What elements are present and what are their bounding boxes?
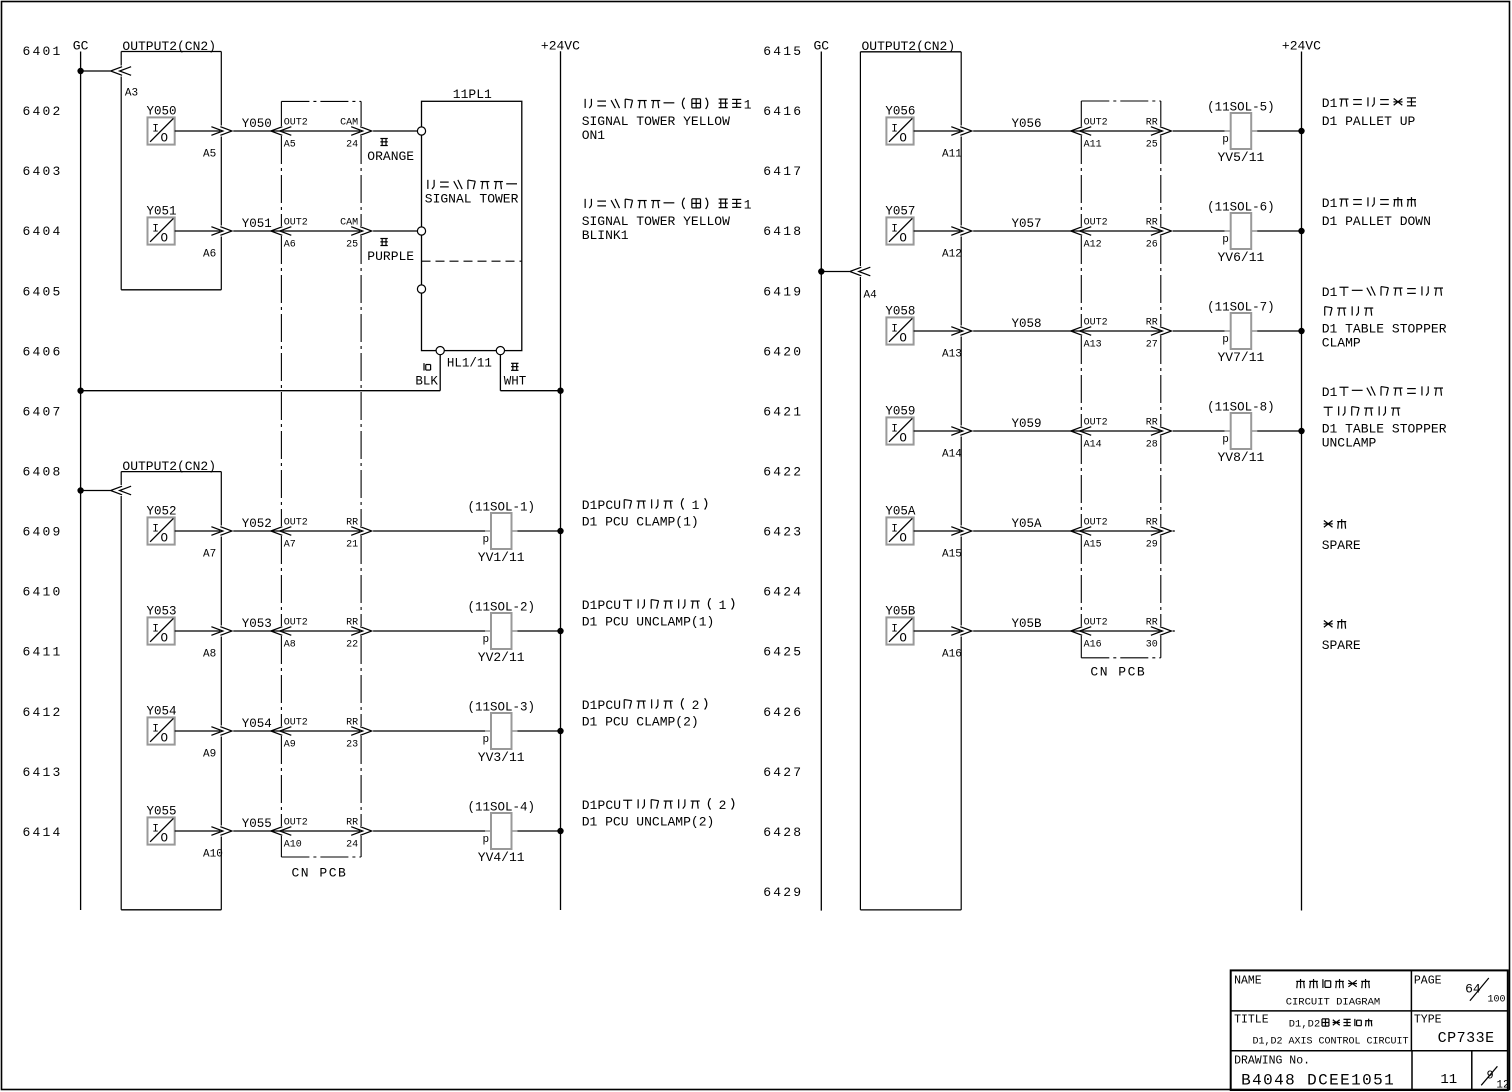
arrow into CN PCB connector (Y050) xyxy=(280,127,292,136)
svg-text:Y052: Y052 xyxy=(242,517,272,531)
arrow into CN PCB connector (Y058) xyxy=(1080,327,1092,336)
svg-text:6419: 6419 xyxy=(763,284,803,299)
svg-text:Y057: Y057 xyxy=(1012,217,1042,231)
svg-text:C: C xyxy=(605,498,613,513)
svg-text:23: 23 xyxy=(346,739,358,750)
wire Y059 to solenoid YV8/11 xyxy=(1173,430,1225,432)
wire inside CN PCB connector (Y05B) xyxy=(1082,630,1160,632)
svg-text:O: O xyxy=(161,831,169,845)
wire inside CN PCB connector (Y058) xyxy=(1082,330,1160,332)
svg-text:D1 PCU CLAMP(2): D1 PCU CLAMP(2) xyxy=(582,715,699,730)
title block TITLE cell xyxy=(1234,1014,1408,1048)
svg-text:OUT2: OUT2 xyxy=(1084,217,1108,228)
svg-text:6413: 6413 xyxy=(23,765,63,780)
svg-text:O: O xyxy=(161,131,169,145)
svg-text:CAM: CAM xyxy=(340,217,358,228)
node junction +24VC rail line y=731 xyxy=(557,728,563,734)
svg-text:6402: 6402 xyxy=(23,104,63,119)
wire solenoid YV6/11 to +24VC rail (right) xyxy=(1257,230,1301,232)
wire Y052 into CN PCB connector xyxy=(233,530,280,532)
wire solenoid YV7/11 to +24VC rail (right) xyxy=(1257,330,1301,332)
svg-text:D: D xyxy=(582,698,590,713)
svg-text:6423: 6423 xyxy=(763,525,803,540)
svg-text:1: 1 xyxy=(719,598,727,613)
svg-text:6427: 6427 xyxy=(763,765,803,780)
arrow out of CN PCB connector (Y053) xyxy=(351,627,363,636)
svg-text:6403: 6403 xyxy=(23,164,63,179)
svg-text:YV4/11: YV4/11 xyxy=(478,850,525,865)
wire Y050 into CN PCB connector xyxy=(233,130,280,132)
output driver I/O symbol Y056 xyxy=(885,105,915,146)
wire color label black (BLK) xyxy=(423,363,425,370)
svg-text:A9: A9 xyxy=(203,748,216,760)
node GC junction at line 6419 (right) xyxy=(818,268,824,274)
svg-text:Y059: Y059 xyxy=(885,405,915,419)
svg-text:NAME: NAME xyxy=(1234,975,1262,988)
svg-text:I: I xyxy=(152,124,159,136)
wire color label orange xyxy=(380,138,387,140)
svg-text:BLK: BLK xyxy=(415,374,438,388)
output driver I/O symbol Y057 xyxy=(885,205,915,246)
title block PAGE cell 64/100 xyxy=(1414,975,1506,1006)
svg-text:I: I xyxy=(152,724,159,736)
svg-text:Y051: Y051 xyxy=(147,205,177,219)
wire inside CN PCB connector (Y055) xyxy=(282,830,360,832)
wire return rail line 6407 (GC to BLK) xyxy=(81,390,441,392)
wire Y052 to solenoid YV1/11 xyxy=(373,530,485,532)
svg-text:CP733E: CP733E xyxy=(1438,1030,1495,1047)
arrow into OUTPUT2 block 2 xyxy=(120,486,132,495)
svg-text:29: 29 xyxy=(1146,539,1158,550)
wire stub spare output Y05B xyxy=(1173,630,1175,632)
svg-text:OUT2: OUT2 xyxy=(284,817,308,828)
output driver I/O symbol Y058 xyxy=(885,305,915,346)
svg-text:A9: A9 xyxy=(284,739,296,750)
svg-text:DRAWING No.: DRAWING No. xyxy=(1234,1054,1310,1067)
node junction +24VC rail (right) y=231 xyxy=(1298,228,1304,234)
arrow out of CN PCB connector (Y055) xyxy=(351,827,363,836)
svg-text:PAGE: PAGE xyxy=(1414,975,1442,988)
svg-text:A13: A13 xyxy=(942,348,962,360)
svg-text:SIGNAL TOWER: SIGNAL TOWER xyxy=(425,191,519,206)
svg-text:O: O xyxy=(161,231,169,245)
arrow out of OUTPUT2 (Y052) xyxy=(211,527,223,536)
svg-text:p: p xyxy=(1222,234,1229,246)
line number column left (6401-6414) xyxy=(23,44,63,840)
svg-text:U: U xyxy=(613,598,621,613)
solenoid valve coil YV6/11 (11SOL-6) xyxy=(1207,200,1275,265)
svg-text:D1 PCU UNCLAMP(1): D1 PCU UNCLAMP(1) xyxy=(582,615,715,630)
wire Y05A into CN PCB connector xyxy=(973,530,1080,532)
svg-text:Y051: Y051 xyxy=(242,217,272,231)
solenoid valve coil YV4/11 (11SOL-4) xyxy=(467,800,535,865)
svg-text:D1,D2 AXIS CONTROL CIRCUIT: D1,D2 AXIS CONTROL CIRCUIT xyxy=(1253,1037,1409,1048)
wire Y056 into CN PCB connector xyxy=(973,130,1080,132)
svg-text:D1 PALLET UP: D1 PALLET UP xyxy=(1322,114,1416,129)
description solenoid row y=731 xyxy=(582,698,707,730)
wire GC to OUTPUT2 block 2 xyxy=(81,490,111,492)
svg-text:O: O xyxy=(899,231,907,245)
arrow out of CN PCB connector (Y05A) xyxy=(1151,527,1163,536)
svg-text:U: U xyxy=(613,698,621,713)
svg-text:ORANGE: ORANGE xyxy=(367,149,414,164)
svg-text:D: D xyxy=(1322,385,1330,400)
wire Y057 to solenoid YV6/11 xyxy=(1173,230,1225,232)
svg-text:100: 100 xyxy=(1488,995,1506,1006)
svg-text:A15: A15 xyxy=(1084,539,1102,550)
svg-text:D1 TABLE STOPPER: D1 TABLE STOPPER xyxy=(1322,322,1447,337)
wire color label purple xyxy=(380,238,387,240)
arrow out of CN PCB connector (Y059) xyxy=(1151,427,1163,436)
svg-text:6412: 6412 xyxy=(23,705,63,720)
output driver I/O symbol Y053 xyxy=(147,605,177,646)
wire solenoid YV2/11 to +24VC rail xyxy=(518,630,561,632)
svg-text:6414: 6414 xyxy=(23,825,63,840)
svg-text:1: 1 xyxy=(1330,385,1338,400)
arrow into CN PCB connector (Y059) xyxy=(1080,427,1092,436)
svg-text:A12: A12 xyxy=(942,248,962,260)
svg-text:UNCLAMP: UNCLAMP xyxy=(1322,436,1377,451)
arrow into CN PCB connector (Y056) xyxy=(1080,127,1092,136)
arrow into OUTPUT2 connector (A3) xyxy=(120,67,132,76)
svg-text:Y053: Y053 xyxy=(242,617,272,631)
svg-text:D: D xyxy=(1322,285,1330,300)
svg-text:p: p xyxy=(483,734,490,746)
wire color label white (WHT) xyxy=(511,362,518,364)
description line 6416: D1 pallet up xyxy=(1322,96,1416,129)
svg-text:O: O xyxy=(161,531,169,545)
arrow into CN PCB connector (Y052) xyxy=(280,527,292,536)
wire inside CN PCB connector (Y059) xyxy=(1082,430,1160,432)
arrow into CN PCB connector (Y05B) xyxy=(1080,627,1092,636)
svg-text:6407: 6407 xyxy=(23,404,63,419)
GC bus vertical wire (left) xyxy=(80,52,82,911)
svg-text:A8: A8 xyxy=(284,639,296,650)
svg-text:U: U xyxy=(613,798,621,813)
arrow into CN PCB connector (Y051) xyxy=(280,227,292,236)
svg-text:6411: 6411 xyxy=(23,645,63,660)
svg-text:1: 1 xyxy=(744,198,752,213)
svg-text:OUT2: OUT2 xyxy=(284,217,308,228)
svg-text:,: , xyxy=(1301,1019,1307,1031)
line number column right (6415-6429) xyxy=(763,44,803,900)
output driver I/O symbol Y05B xyxy=(885,605,916,646)
svg-text:2: 2 xyxy=(692,698,700,713)
wire GC to OUTPUT2(CN2) connector A3 xyxy=(81,70,111,72)
description solenoid row y=831 xyxy=(582,798,734,830)
svg-text:30: 30 xyxy=(1146,639,1158,650)
svg-text:I: I xyxy=(152,524,159,536)
svg-text:A13: A13 xyxy=(1084,339,1102,350)
svg-text:1: 1 xyxy=(692,498,700,513)
svg-text:SIGNAL TOWER YELLOW: SIGNAL TOWER YELLOW xyxy=(582,114,730,129)
svg-text:O: O xyxy=(899,131,907,145)
solenoid valve coil YV3/11 (11SOL-3) xyxy=(467,700,535,765)
wire Y054 to solenoid YV3/11 xyxy=(373,730,485,732)
svg-text:TITLE: TITLE xyxy=(1234,1014,1269,1027)
wire inside CN PCB connector (Y057) xyxy=(1082,230,1160,232)
svg-text:O: O xyxy=(161,631,169,645)
svg-text:O: O xyxy=(899,631,907,645)
terminal circle signal tower pin (orange, line 6402) xyxy=(417,127,425,135)
svg-text:OUT2: OUT2 xyxy=(1084,417,1108,428)
svg-text:Y055: Y055 xyxy=(242,817,272,831)
svg-text:A11: A11 xyxy=(942,148,962,160)
svg-text:D1 PCU UNCLAMP(2): D1 PCU UNCLAMP(2) xyxy=(582,815,715,830)
svg-text:6429: 6429 xyxy=(763,885,803,900)
arrow out of CN PCB connector (Y05B) xyxy=(1151,627,1163,636)
svg-text:A8: A8 xyxy=(203,648,216,660)
svg-text:O: O xyxy=(161,731,169,745)
connector CN PCB dash-dot boundary (left) xyxy=(281,101,361,880)
arrow out of OUTPUT2 (Y059) xyxy=(951,427,963,436)
svg-text:B4048 DCEE1051: B4048 DCEE1051 xyxy=(1241,1072,1395,1090)
svg-text:OUT2: OUT2 xyxy=(1084,517,1108,528)
svg-text:A4: A4 xyxy=(864,290,878,302)
svg-text:CN PCB: CN PCB xyxy=(292,866,348,881)
arrow out of OUTPUT2 (Y050) xyxy=(211,127,223,136)
svg-text:D: D xyxy=(1289,1019,1295,1031)
svg-text:O: O xyxy=(899,331,907,345)
output driver I/O symbol Y054 xyxy=(147,705,177,746)
wire Y05A from I/O driver to connector pin A15 xyxy=(914,530,961,532)
svg-text:p: p xyxy=(483,534,490,546)
terminal circle signal tower BLK pin xyxy=(436,347,444,355)
svg-text:2: 2 xyxy=(719,798,727,813)
wire Y050 to signal tower terminal (orange) xyxy=(373,130,417,132)
svg-text:SIGNAL TOWER YELLOW: SIGNAL TOWER YELLOW xyxy=(582,214,730,229)
svg-text:6405: 6405 xyxy=(23,284,63,299)
wire inside CN PCB connector (Y056) xyxy=(1082,130,1160,132)
svg-text:D1 PCU CLAMP(1): D1 PCU CLAMP(1) xyxy=(582,515,699,530)
description line 6421: D1 table stopper unclamp xyxy=(1322,385,1447,451)
output driver I/O symbol Y055 xyxy=(147,805,177,846)
svg-text:+24VC: +24VC xyxy=(1282,39,1321,54)
svg-text:GC: GC xyxy=(73,39,89,54)
wire inside CN PCB connector (Y053) xyxy=(282,630,360,632)
svg-text:p: p xyxy=(1222,134,1229,146)
description line 6420: D1 table stopper clamp xyxy=(1322,285,1447,351)
svg-text:1: 1 xyxy=(1330,96,1338,111)
wire Y055 into CN PCB connector xyxy=(233,830,280,832)
svg-text:6406: 6406 xyxy=(23,344,63,359)
arrow out of OUTPUT2 (Y051) xyxy=(211,227,223,236)
svg-text:6420: 6420 xyxy=(763,344,803,359)
node junction +24VC rail (right) y=431 xyxy=(1298,428,1304,434)
svg-text:Y054: Y054 xyxy=(242,717,272,731)
description line 6404: signal tower yellow blink1 xyxy=(582,198,752,244)
svg-text:6418: 6418 xyxy=(763,224,803,239)
arrow out of OUTPUT2 (Y05B) xyxy=(951,627,963,636)
svg-text:D: D xyxy=(1322,96,1330,111)
svg-text:1: 1 xyxy=(590,598,598,613)
svg-text:6410: 6410 xyxy=(23,585,63,600)
wire solenoid YV1/11 to +24VC rail xyxy=(518,530,561,532)
solenoid valve coil YV1/11 (11SOL-1) xyxy=(467,500,535,565)
svg-text:BLINK1: BLINK1 xyxy=(582,228,629,243)
svg-text:Y05B: Y05B xyxy=(1012,617,1043,631)
description line 6423: spare xyxy=(1322,519,1361,553)
wire Y055 to solenoid YV4/11 xyxy=(373,830,485,832)
wire WHT drop from signal tower xyxy=(499,355,501,391)
wire Y055 from I/O driver to connector pin A10 xyxy=(175,830,221,832)
svg-text:D: D xyxy=(582,498,590,513)
wire Y059 from I/O driver to connector pin A14 xyxy=(914,430,961,432)
arrow out of CN PCB connector (Y056) xyxy=(1151,127,1163,136)
wire Y05B into CN PCB connector xyxy=(973,630,1080,632)
solenoid valve coil YV7/11 (11SOL-7) xyxy=(1207,300,1275,365)
svg-text:YV3/11: YV3/11 xyxy=(478,750,525,765)
svg-text:A7: A7 xyxy=(203,548,216,560)
svg-text:64: 64 xyxy=(1465,981,1481,996)
wire Y056 to solenoid YV5/11 xyxy=(1173,130,1225,132)
svg-text:I: I xyxy=(891,624,898,636)
svg-text:6416: 6416 xyxy=(763,104,803,119)
svg-text:HL1/11: HL1/11 xyxy=(447,356,492,370)
arrow out of CN PCB connector (Y057) xyxy=(1151,227,1163,236)
svg-text:6415: 6415 xyxy=(763,44,803,59)
wire Y05B from I/O driver to connector pin A16 xyxy=(914,630,961,632)
svg-text:22: 22 xyxy=(346,639,358,650)
svg-text:p: p xyxy=(1222,334,1229,346)
wire inside CN PCB connector (Y054) xyxy=(282,730,360,732)
svg-text:D: D xyxy=(582,598,590,613)
svg-text:O: O xyxy=(899,531,907,545)
svg-text:OUT2: OUT2 xyxy=(284,617,308,628)
svg-text:2: 2 xyxy=(1314,1019,1320,1031)
wire Y051 into CN PCB connector xyxy=(233,230,280,232)
svg-text:1: 1 xyxy=(590,498,598,513)
terminal circle signal tower WHT pin xyxy=(496,347,504,355)
svg-text:Y057: Y057 xyxy=(885,205,915,219)
wire Y053 into CN PCB connector xyxy=(233,630,280,632)
svg-text:D: D xyxy=(1322,196,1330,211)
node junction +24VC rail line y=531 xyxy=(557,528,563,534)
node GC junction at line 6401 xyxy=(77,68,83,74)
svg-text:25: 25 xyxy=(346,239,358,250)
output driver I/O symbol Y059 xyxy=(885,405,915,446)
svg-text:6408: 6408 xyxy=(23,464,63,479)
svg-text:TYPE: TYPE xyxy=(1414,1014,1442,1027)
output driver I/O symbol Y051 xyxy=(147,205,177,246)
svg-text:YV8/11: YV8/11 xyxy=(1217,450,1264,465)
svg-text:11PL1: 11PL1 xyxy=(453,87,492,102)
output driver I/O symbol Y05A xyxy=(885,505,916,546)
svg-text:I: I xyxy=(891,224,898,236)
svg-text:Y058: Y058 xyxy=(885,305,915,319)
arrow out of CN PCB connector (Y058) xyxy=(1151,327,1163,336)
arrow out of CN PCB connector (Y050) xyxy=(351,127,363,136)
arrow out of OUTPUT2 (Y05A) xyxy=(951,527,963,536)
svg-text:Y058: Y058 xyxy=(1012,317,1042,331)
description line 6425: spare xyxy=(1322,619,1361,653)
terminal circle signal tower pin (purple, line 6404) xyxy=(417,227,425,235)
svg-text:A11: A11 xyxy=(1084,139,1102,150)
svg-text:OUT2: OUT2 xyxy=(1084,617,1108,628)
svg-text:I: I xyxy=(891,324,898,336)
svg-text:24: 24 xyxy=(346,839,358,850)
OUTPUT2(CN2) connector block (lines 6415-6429) xyxy=(860,39,961,910)
svg-text:6426: 6426 xyxy=(763,705,803,720)
svg-text:I: I xyxy=(152,624,159,636)
svg-text:ON1: ON1 xyxy=(582,128,606,143)
arrow into CN PCB connector (Y053) xyxy=(280,627,292,636)
svg-text:A3: A3 xyxy=(125,88,138,100)
svg-text:U: U xyxy=(613,498,621,513)
arrow out of OUTPUT2 (Y057) xyxy=(951,227,963,236)
svg-text:p: p xyxy=(1222,434,1229,446)
svg-text:Y050: Y050 xyxy=(242,117,272,131)
arrow into CN PCB connector (Y05A) xyxy=(1080,527,1092,536)
terminal circle signal tower spare pin (line 6405) xyxy=(417,285,425,293)
svg-text:6409: 6409 xyxy=(23,525,63,540)
svg-text:1: 1 xyxy=(1330,196,1338,211)
wire Y058 from I/O driver to connector pin A13 xyxy=(914,330,961,332)
arrow out of OUTPUT2 (Y055) xyxy=(211,827,223,836)
node GC junction at line 6408 xyxy=(77,487,83,493)
svg-text:A15: A15 xyxy=(942,548,962,560)
svg-text:A16: A16 xyxy=(942,648,962,660)
svg-text:P: P xyxy=(597,498,605,513)
svg-text:P: P xyxy=(597,598,605,613)
title block TYPE cell CP733E xyxy=(1414,1014,1495,1047)
svg-text:I: I xyxy=(891,424,898,436)
wire Y056 from I/O driver to connector pin A11 xyxy=(914,130,961,132)
title block NAME cell xyxy=(1234,975,1380,1009)
svg-text:21: 21 xyxy=(346,539,358,550)
node junction +24VC rail line y=831 xyxy=(557,828,563,834)
svg-text:A16: A16 xyxy=(1084,639,1102,650)
arrow into CN PCB connector (Y054) xyxy=(280,727,292,736)
GC bus vertical wire (right) xyxy=(820,52,822,911)
wire inside CN PCB connector (Y05A) xyxy=(1082,530,1160,532)
wire Y053 from I/O driver to connector pin A8 xyxy=(175,630,221,632)
wire inside CN PCB connector (Y050) xyxy=(282,130,360,132)
svg-text:6404: 6404 xyxy=(23,224,63,239)
svg-text:PURPLE: PURPLE xyxy=(367,249,414,264)
svg-text:SPARE: SPARE xyxy=(1322,538,1361,553)
wire BLK drop from signal tower xyxy=(439,355,441,391)
svg-text:O: O xyxy=(899,431,907,445)
svg-text:24: 24 xyxy=(346,139,358,150)
svg-text:Y059: Y059 xyxy=(1012,417,1042,431)
wire inside CN PCB connector (Y051) xyxy=(282,230,360,232)
svg-text:D: D xyxy=(1308,1019,1314,1031)
svg-text:I: I xyxy=(891,524,898,536)
svg-text:YV6/11: YV6/11 xyxy=(1217,250,1264,265)
arrow out of CN PCB connector (Y054) xyxy=(351,727,363,736)
svg-text:1: 1 xyxy=(744,98,752,113)
description line 6418: D1 pallet down xyxy=(1322,196,1431,229)
OUTPUT2(CN2) connector block 1 (lines 6401-6405) xyxy=(121,39,221,290)
arrow out of OUTPUT2 (Y053) xyxy=(211,627,223,636)
wire solenoid YV3/11 to +24VC rail xyxy=(518,730,561,732)
svg-text:SPARE: SPARE xyxy=(1322,638,1361,653)
node junction +24VC x return rail xyxy=(557,388,563,394)
svg-text:D: D xyxy=(582,798,590,813)
wire solenoid YV4/11 to +24VC rail xyxy=(518,830,561,832)
svg-text:YV5/11: YV5/11 xyxy=(1217,150,1264,165)
svg-text:A5: A5 xyxy=(284,139,296,150)
title block revision 9/12 xyxy=(1481,1066,1509,1091)
svg-text:YV1/11: YV1/11 xyxy=(478,550,525,565)
svg-text:I: I xyxy=(152,224,159,236)
solenoid valve coil YV5/11 (11SOL-5) xyxy=(1207,100,1275,165)
arrow out of CN PCB connector (Y051) xyxy=(351,227,363,236)
wire return rail line 6407 (WHT to +24VC) xyxy=(500,390,560,392)
svg-text:6417: 6417 xyxy=(763,164,803,179)
arrow out of CN PCB connector (Y052) xyxy=(351,527,363,536)
